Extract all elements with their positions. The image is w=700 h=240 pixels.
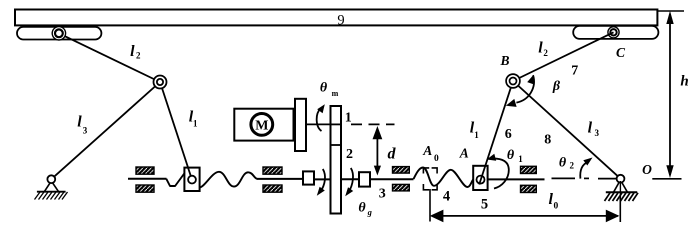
svg-text:A: A xyxy=(459,146,469,161)
svg-text:h: h xyxy=(680,73,688,89)
svg-text:0: 0 xyxy=(434,154,439,164)
svg-text:m: m xyxy=(332,89,339,98)
svg-text:3: 3 xyxy=(595,128,600,138)
svg-text:3: 3 xyxy=(83,126,88,136)
svg-text:θ: θ xyxy=(507,148,515,163)
svg-text:1: 1 xyxy=(518,154,523,164)
svg-text:7: 7 xyxy=(571,64,578,79)
svg-text:0: 0 xyxy=(554,202,559,212)
svg-text:M: M xyxy=(255,119,268,134)
svg-text:2: 2 xyxy=(570,161,575,171)
svg-text:C: C xyxy=(616,45,626,60)
svg-text:l: l xyxy=(77,114,82,131)
svg-text:g: g xyxy=(367,207,373,217)
svg-text:l: l xyxy=(130,43,135,60)
svg-text:l: l xyxy=(588,120,593,137)
svg-text:3: 3 xyxy=(379,186,386,201)
svg-text:θ: θ xyxy=(559,155,567,170)
svg-text:B: B xyxy=(499,53,509,68)
svg-text:O: O xyxy=(642,162,652,177)
svg-text:2: 2 xyxy=(346,147,353,162)
svg-text:β: β xyxy=(552,79,561,94)
svg-text:4: 4 xyxy=(443,188,450,204)
svg-text:d: d xyxy=(388,146,397,163)
svg-text:A: A xyxy=(422,143,432,158)
svg-text:5: 5 xyxy=(481,196,488,212)
svg-text:2: 2 xyxy=(136,51,141,61)
svg-text:9: 9 xyxy=(337,13,344,29)
svg-text:1: 1 xyxy=(345,111,352,126)
svg-text:θ: θ xyxy=(320,80,328,95)
svg-text:8: 8 xyxy=(544,133,551,148)
svg-text:θ: θ xyxy=(358,201,366,216)
svg-text:6: 6 xyxy=(505,127,512,142)
svg-text:1: 1 xyxy=(474,130,479,140)
svg-text:2: 2 xyxy=(543,48,548,58)
svg-text:1: 1 xyxy=(193,119,198,129)
